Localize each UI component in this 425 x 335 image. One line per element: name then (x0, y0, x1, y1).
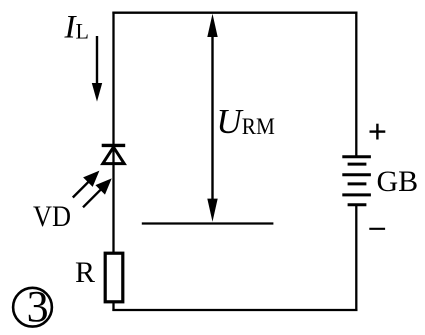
battery plus sign (370, 124, 386, 140)
voltage arrow URM (double headed) (207, 14, 217, 222)
battery GB long plate 3 (342, 193, 371, 196)
battery GB long plate 2 (342, 173, 371, 176)
light arrow 2 (lower) (83, 179, 111, 207)
wire left vertical lower (112, 300, 114, 311)
current arrow IL (92, 36, 102, 102)
svg-text:RM: RM (242, 114, 275, 140)
photodiode VD cathode bar (102, 144, 126, 147)
wire top horizontal (112, 12, 357, 14)
figure number circle 3 (13, 282, 52, 331)
svg-text:U: U (216, 102, 244, 141)
resistor R body (105, 253, 123, 302)
svg-text:L: L (76, 18, 89, 43)
battery GB long plate 1 (342, 155, 371, 158)
battery GB short plate 1 (348, 163, 367, 166)
light arrow 1 (upper) (73, 172, 99, 198)
wire right vertical lower (355, 205, 357, 311)
wire left vertical through diode to resistor (112, 146, 114, 254)
wire bottom horizontal (112, 309, 357, 311)
svg-text:GB: GB (377, 165, 419, 198)
wire right vertical upper (355, 12, 357, 157)
battery GB short plate 3 (348, 203, 367, 206)
battery minus sign (369, 228, 385, 230)
wire left vertical upper (112, 12, 114, 146)
svg-text:R: R (75, 256, 95, 289)
battery GB short plate 2 (348, 182, 367, 185)
reference line under URM arrow (142, 222, 274, 224)
svg-text:3: 3 (27, 282, 49, 331)
photodiode VD triangle (103, 147, 124, 164)
svg-text:VD: VD (33, 200, 71, 233)
